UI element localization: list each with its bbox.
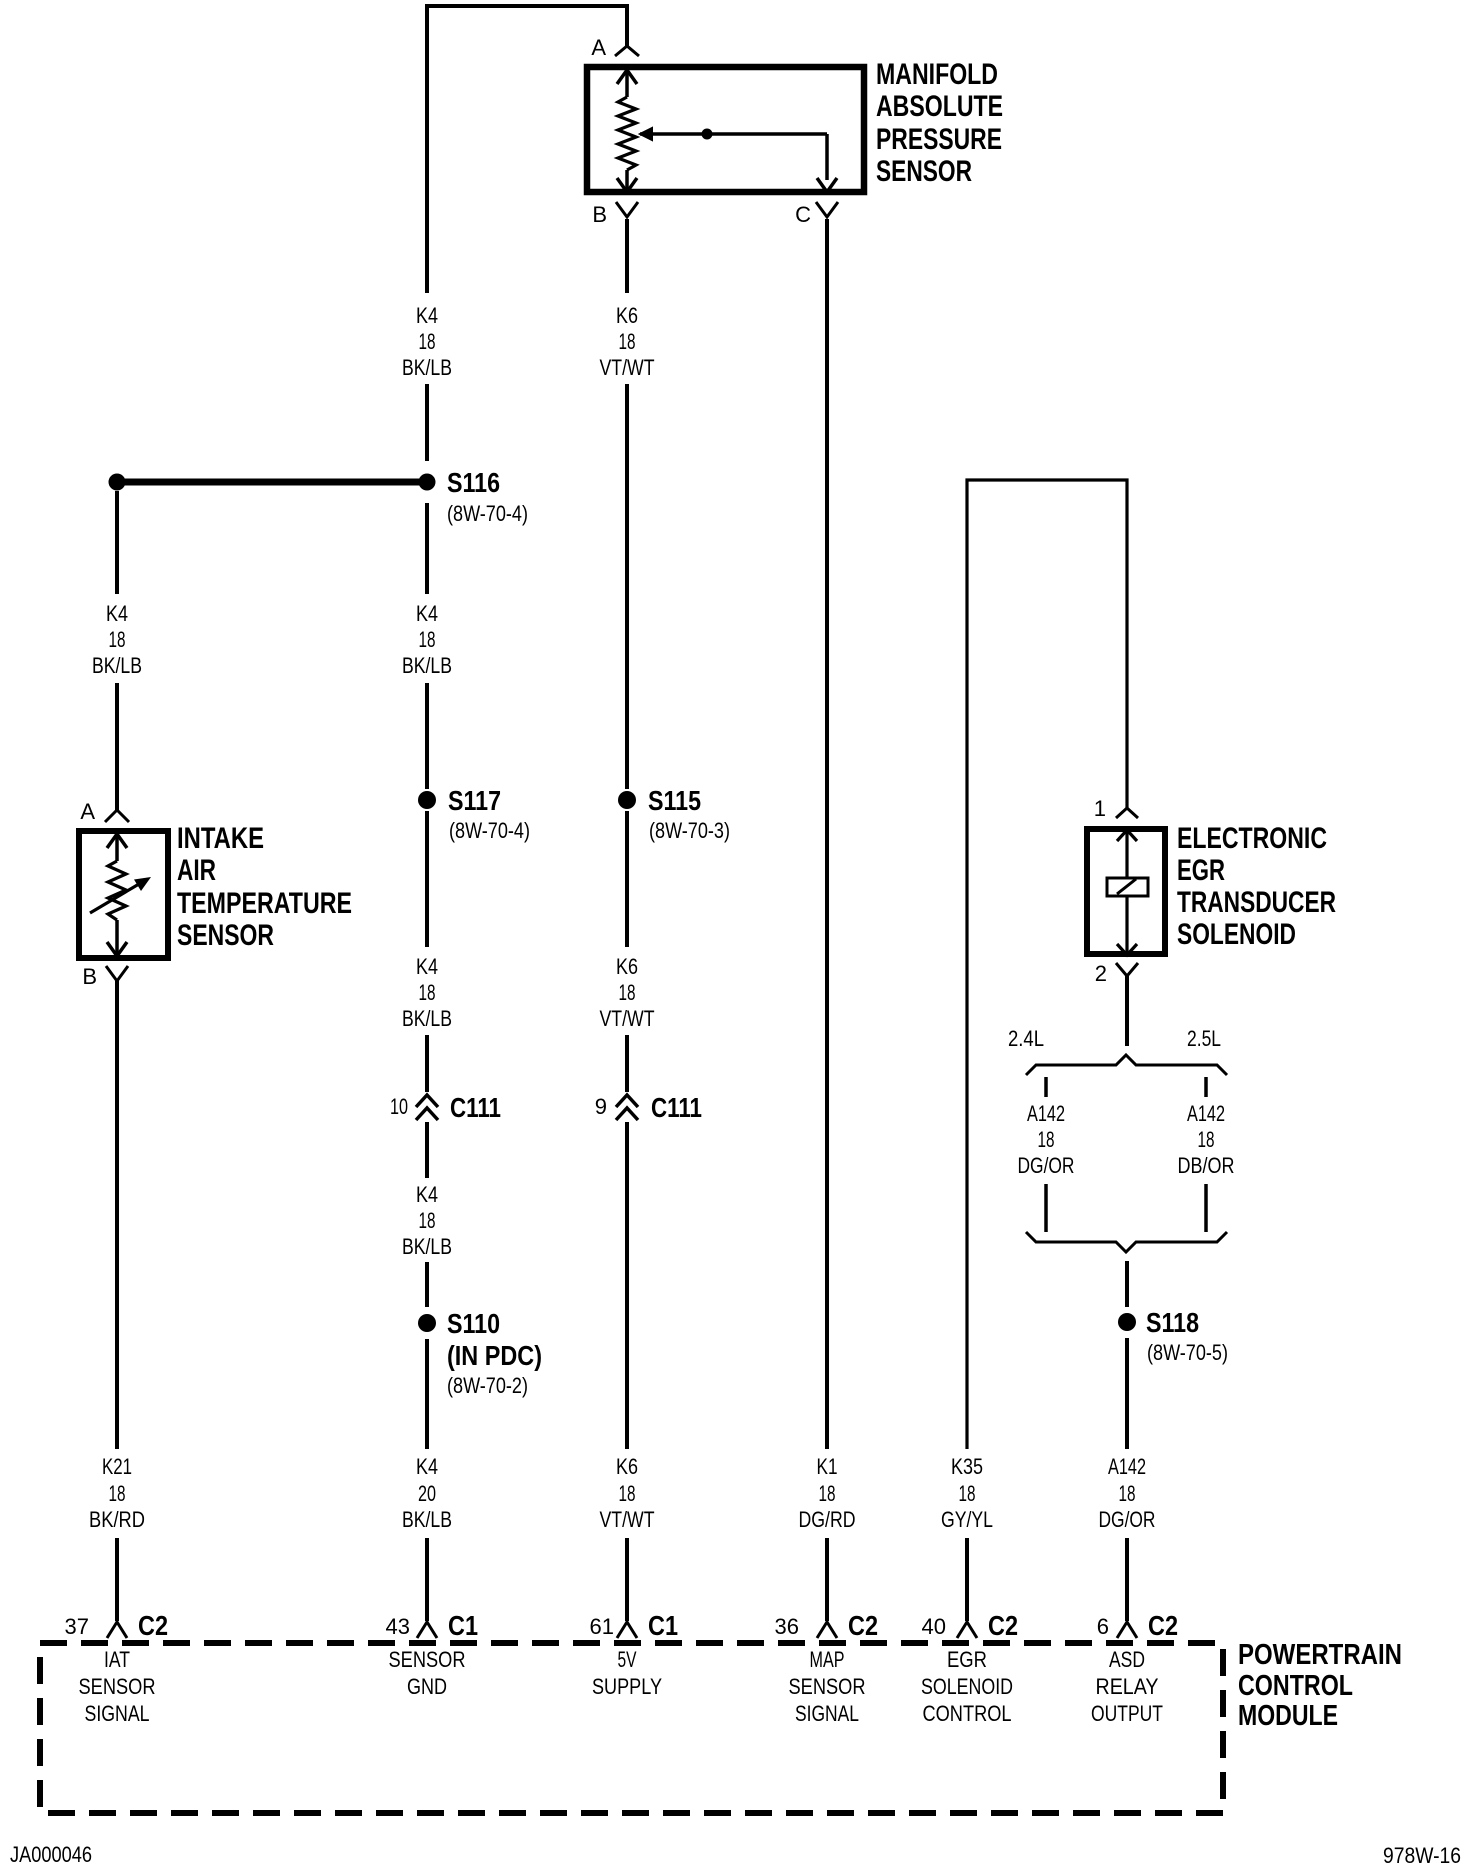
- svg-text:18: 18: [109, 627, 126, 652]
- wire col2 S116 down: [425, 503, 429, 594]
- svg-text:C2: C2: [138, 1610, 168, 1641]
- wire top loop from S116 column to MAP pin A: [427, 6, 627, 293]
- wire col3 into PCM pin 61: [625, 1538, 629, 1621]
- svg-text:C2: C2: [988, 1610, 1018, 1641]
- svg-text:C2: C2: [1148, 1610, 1178, 1641]
- svg-text:(8W-70-3): (8W-70-3): [649, 818, 730, 843]
- wire col4 MAP pin C down to bottom label: [825, 219, 829, 1449]
- wire col2 to S110: [425, 1262, 429, 1307]
- svg-text:MAP: MAP: [810, 1647, 845, 1672]
- wire col2 label to S116: [425, 384, 429, 461]
- splice S115 junction dot: [618, 791, 636, 809]
- splice S118 junction dot: [1118, 1313, 1136, 1331]
- svg-text:DB/OR: DB/OR: [1178, 1153, 1235, 1178]
- svg-text:(8W-70-5): (8W-70-5): [1147, 1340, 1228, 1365]
- wire stub 2.4L branch upper: [1044, 1077, 1048, 1097]
- svg-text:K6: K6: [616, 303, 638, 328]
- svg-text:18: 18: [419, 627, 436, 652]
- svg-text:(8W-70-4): (8W-70-4): [449, 818, 530, 843]
- svg-text:S116: S116: [447, 467, 500, 498]
- PCM terminal label EGR SOLENOID CONTROL: [921, 1647, 1013, 1726]
- wire col3 MAP pin B down: [625, 219, 629, 293]
- PCM terminal label SENSOR GND: [389, 1647, 466, 1699]
- PCM pin 36 connector half: [817, 1622, 837, 1638]
- IAT sensor title: [177, 822, 352, 952]
- svg-text:1: 1: [1094, 796, 1106, 821]
- wire col1 IAT to bottom label: [115, 981, 119, 1449]
- PCM pin 6 connector half: [1117, 1622, 1137, 1638]
- svg-text:B: B: [592, 202, 607, 227]
- svg-text:BK/LB: BK/LB: [402, 355, 452, 380]
- svg-text:SENSOR: SENSOR: [79, 1674, 156, 1699]
- svg-text:OUTPUT: OUTPUT: [1091, 1701, 1163, 1726]
- PCM pin 37 connector half: [107, 1622, 127, 1638]
- svg-text:K6: K6: [616, 1454, 638, 1479]
- wire col1 below junction: [115, 491, 119, 594]
- svg-text:GND: GND: [407, 1674, 447, 1699]
- svg-text:18: 18: [819, 1481, 836, 1506]
- wire col1 to IAT pin A: [115, 683, 119, 810]
- svg-text:DG/OR: DG/OR: [1018, 1153, 1075, 1178]
- svg-text:61: 61: [590, 1614, 614, 1639]
- MAP wiper arm with arrow and junction dot: [640, 128, 837, 192]
- svg-text:EGR: EGR: [947, 1647, 987, 1672]
- svg-text:C111: C111: [651, 1092, 702, 1123]
- svg-text:ABSOLUTE: ABSOLUTE: [876, 90, 1003, 123]
- svg-text:DG/RD: DG/RD: [799, 1507, 856, 1532]
- svg-text:2.4L: 2.4L: [1008, 1026, 1044, 1051]
- EGR solenoid box: [1087, 829, 1165, 954]
- svg-text:S117: S117: [448, 785, 501, 816]
- wire col2 into PCM pin 43: [425, 1538, 429, 1621]
- svg-text:K4: K4: [416, 1182, 438, 1207]
- wire col3 to S115: [625, 384, 629, 789]
- svg-text:A: A: [80, 799, 95, 824]
- svg-text:SOLENOID: SOLENOID: [1177, 918, 1296, 951]
- wire EGR pin 2 to brace: [1125, 976, 1129, 1046]
- svg-text:ELECTRONIC: ELECTRONIC: [1177, 822, 1327, 855]
- EGR pin 1 connector half: [1116, 808, 1138, 818]
- wire stub 2.4L branch lower: [1044, 1184, 1048, 1232]
- svg-text:A142: A142: [1027, 1101, 1065, 1126]
- svg-text:MANIFOLD: MANIFOLD: [876, 58, 998, 91]
- svg-text:18: 18: [419, 329, 436, 354]
- svg-text:A142: A142: [1187, 1101, 1225, 1126]
- splice S110 junction dot: [418, 1314, 436, 1332]
- svg-text:18: 18: [1198, 1127, 1215, 1152]
- PCM title POWERTRAIN CONTROL MODULE: [1238, 1639, 1402, 1732]
- svg-text:VT/WT: VT/WT: [600, 1006, 655, 1031]
- EGR pin 2 connector half: [1116, 963, 1138, 976]
- svg-text:BK/LB: BK/LB: [402, 1507, 452, 1532]
- svg-text:C: C: [795, 202, 811, 227]
- svg-text:C2: C2: [848, 1610, 878, 1641]
- svg-text:SIGNAL: SIGNAL: [795, 1701, 859, 1726]
- svg-text:18: 18: [109, 1481, 126, 1506]
- MAP sensor box: [587, 67, 864, 192]
- svg-text:TEMPERATURE: TEMPERATURE: [177, 887, 352, 920]
- svg-text:SOLENOID: SOLENOID: [921, 1674, 1013, 1699]
- wire col5 into PCM pin 40: [965, 1538, 969, 1621]
- svg-text:18: 18: [1038, 1127, 1055, 1152]
- MAP pin B connector half: [616, 202, 638, 217]
- svg-text:GY/YL: GY/YL: [941, 1507, 993, 1532]
- svg-text:JA000046: JA000046: [10, 1842, 92, 1867]
- svg-text:K21: K21: [102, 1454, 132, 1479]
- wire col1 into PCM pin 37: [115, 1538, 119, 1621]
- svg-text:S118: S118: [1146, 1307, 1199, 1338]
- svg-text:K1: K1: [817, 1454, 838, 1479]
- PCM terminal label 5V SUPPLY: [592, 1647, 662, 1699]
- svg-text:(8W-70-2): (8W-70-2): [447, 1373, 528, 1398]
- svg-text:AIR: AIR: [177, 854, 216, 887]
- svg-text:POWERTRAIN: POWERTRAIN: [1238, 1639, 1402, 1671]
- EGR solenoid title: [1177, 822, 1336, 951]
- svg-text:SENSOR: SENSOR: [876, 155, 972, 188]
- svg-text:TRANSDUCER: TRANSDUCER: [1177, 886, 1336, 919]
- svg-text:SENSOR: SENSOR: [789, 1674, 866, 1699]
- svg-text:20: 20: [418, 1481, 436, 1506]
- svg-text:40: 40: [922, 1614, 946, 1639]
- svg-text:BK/LB: BK/LB: [402, 653, 452, 678]
- wire col4 into PCM pin 36: [825, 1538, 829, 1621]
- svg-text:18: 18: [419, 980, 436, 1005]
- wire stub 2.5L branch lower: [1204, 1184, 1208, 1232]
- svg-text:C111: C111: [450, 1092, 501, 1123]
- svg-text:BK/LB: BK/LB: [402, 1234, 452, 1259]
- svg-text:BK/LB: BK/LB: [92, 653, 142, 678]
- svg-text:18: 18: [619, 980, 636, 1005]
- brace bottom (merge to S118): [1026, 1232, 1227, 1252]
- svg-text:2: 2: [1095, 961, 1107, 986]
- PCM terminal label MAP SENSOR SIGNAL: [789, 1647, 866, 1726]
- svg-text:SENSOR: SENSOR: [177, 919, 274, 952]
- svg-text:MODULE: MODULE: [1238, 1700, 1338, 1732]
- svg-text:18: 18: [619, 1481, 636, 1506]
- svg-text:DG/OR: DG/OR: [1099, 1507, 1156, 1532]
- svg-text:IAT: IAT: [104, 1647, 130, 1672]
- svg-text:18: 18: [419, 1208, 436, 1233]
- PCM pin 43 connector half: [417, 1622, 437, 1638]
- wire col3 S115 down: [625, 811, 629, 947]
- svg-text:SIGNAL: SIGNAL: [85, 1701, 150, 1726]
- wire col6 into PCM pin 6: [1125, 1538, 1129, 1621]
- connector C111 pin 10 (double chevron): [416, 1095, 438, 1120]
- wire stub 2.5L branch upper: [1204, 1077, 1208, 1097]
- MAP internal resistor (potentiometer): [617, 70, 637, 192]
- svg-text:CONTROL: CONTROL: [923, 1701, 1012, 1726]
- wire col3 to C111: [625, 1035, 629, 1092]
- svg-text:A: A: [591, 35, 606, 60]
- svg-text:9: 9: [595, 1094, 607, 1119]
- svg-text:K35: K35: [951, 1454, 983, 1479]
- IAT sensor box: [79, 831, 168, 958]
- svg-text:K4: K4: [416, 1454, 438, 1479]
- svg-text:18: 18: [619, 329, 636, 354]
- svg-text:C1: C1: [648, 1610, 678, 1641]
- svg-text:C1: C1: [448, 1610, 478, 1641]
- svg-text:2.5L: 2.5L: [1187, 1026, 1221, 1051]
- svg-text:B: B: [82, 964, 97, 989]
- IAT pin B connector half: [106, 966, 128, 981]
- svg-text:SENSOR: SENSOR: [389, 1647, 466, 1672]
- PCM terminal label IAT SENSOR SIGNAL: [79, 1647, 156, 1726]
- IAT thermistor symbol: [90, 834, 151, 956]
- svg-text:BK/LB: BK/LB: [402, 1006, 452, 1031]
- connector C111 pin 9 (double chevron): [616, 1095, 638, 1120]
- wire brace to S118: [1125, 1261, 1129, 1307]
- wire col2 S110 down: [425, 1339, 429, 1449]
- wire thick link S116 to IAT column: [124, 479, 420, 486]
- splice S117 junction dot: [418, 791, 436, 809]
- svg-text:RELAY: RELAY: [1096, 1674, 1159, 1699]
- svg-text:K4: K4: [416, 954, 438, 979]
- svg-text:(8W-70-4): (8W-70-4): [447, 501, 528, 526]
- svg-text:36: 36: [775, 1614, 799, 1639]
- PCM pin 61 connector half: [617, 1622, 637, 1638]
- wire col2 below C111: [425, 1122, 429, 1178]
- EGR solenoid coil symbol: [1107, 830, 1148, 955]
- svg-text:S115: S115: [648, 785, 701, 816]
- svg-text:SUPPLY: SUPPLY: [592, 1674, 662, 1699]
- svg-text:18: 18: [959, 1481, 976, 1506]
- PCM terminal label ASD RELAY OUTPUT: [1091, 1647, 1163, 1726]
- wire EGR control loop: PCM pin 40 up and over to EGR pin 1: [967, 480, 1127, 1449]
- svg-text:INTAKE: INTAKE: [177, 822, 264, 855]
- wire col2 S117 down: [425, 811, 429, 947]
- svg-text:10: 10: [390, 1094, 408, 1119]
- brace top (splits to 2.4L / 2.5L wires): [1026, 1055, 1227, 1075]
- svg-text:EGR: EGR: [1177, 854, 1225, 887]
- svg-text:18: 18: [1119, 1481, 1136, 1506]
- svg-text:37: 37: [65, 1614, 89, 1639]
- PCM pin 40 connector half: [957, 1622, 977, 1638]
- svg-text:VT/WT: VT/WT: [600, 355, 655, 380]
- wire col2 to C111: [425, 1035, 429, 1092]
- svg-text:43: 43: [386, 1614, 410, 1639]
- IAT pin A connector half: [105, 810, 129, 822]
- wire col2 to S117: [425, 683, 429, 789]
- node IAT column junction dot: [109, 474, 126, 491]
- wire col3 C111 to bottom label: [625, 1122, 629, 1449]
- svg-text:5V: 5V: [618, 1647, 637, 1672]
- svg-text:K4: K4: [416, 303, 438, 328]
- svg-text:K4: K4: [106, 601, 128, 626]
- svg-text:VT/WT: VT/WT: [600, 1507, 655, 1532]
- svg-text:PRESSURE: PRESSURE: [876, 123, 1002, 156]
- svg-text:A142: A142: [1108, 1454, 1146, 1479]
- svg-text:978W-16: 978W-16: [1383, 1843, 1461, 1868]
- svg-text:(IN PDC): (IN PDC): [447, 1340, 542, 1371]
- svg-text:S110: S110: [447, 1308, 500, 1339]
- wire S118 down: [1125, 1338, 1129, 1449]
- svg-text:K4: K4: [416, 601, 438, 626]
- svg-text:ASD: ASD: [1109, 1647, 1145, 1672]
- MAP pin A connector half: [615, 46, 639, 56]
- PCM dashed box (Powertrain Control Module): [40, 1643, 1223, 1813]
- svg-text:K6: K6: [616, 954, 638, 979]
- svg-text:BK/RD: BK/RD: [89, 1507, 145, 1532]
- splice S116 junction dot: [419, 474, 436, 491]
- svg-text:CONTROL: CONTROL: [1238, 1670, 1353, 1702]
- svg-text:6: 6: [1097, 1614, 1109, 1639]
- MAP pin C connector half: [816, 202, 838, 217]
- MAP sensor title: [876, 58, 1003, 188]
